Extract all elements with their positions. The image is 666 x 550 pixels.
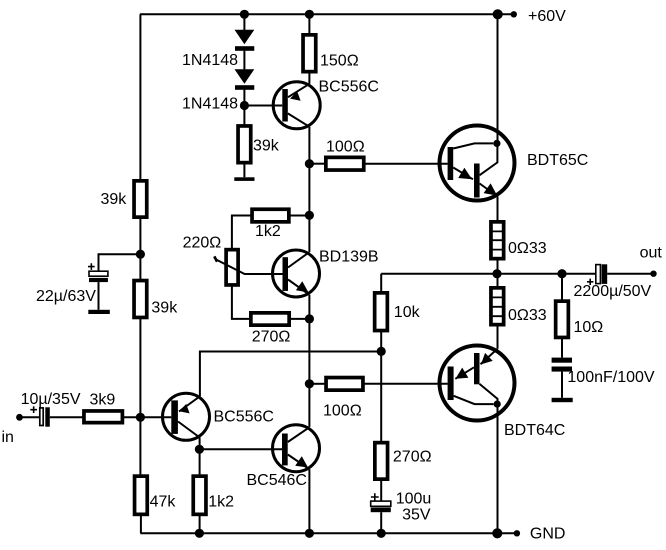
svg-text:150Ω: 150Ω [320, 52, 359, 69]
svg-text:BC556C: BC556C [319, 78, 379, 95]
svg-text:10µ/35V: 10µ/35V [21, 391, 81, 408]
svg-text:1k2: 1k2 [255, 223, 281, 240]
svg-text:BDT65C: BDT65C [527, 152, 588, 169]
svg-text:3k9: 3k9 [90, 392, 116, 409]
svg-text:in: in [2, 429, 14, 446]
svg-text:270Ω: 270Ω [252, 329, 291, 346]
svg-text:39k: 39k [101, 191, 128, 208]
svg-text:BDT64C: BDT64C [504, 422, 565, 439]
svg-text:100u: 100u [396, 491, 432, 508]
svg-text:10Ω: 10Ω [574, 319, 604, 336]
svg-text:10k: 10k [394, 304, 421, 321]
svg-text:1k2: 1k2 [208, 494, 234, 511]
svg-text:39k: 39k [151, 300, 178, 317]
svg-text:+60V: +60V [528, 8, 566, 25]
svg-text:35V: 35V [402, 507, 431, 524]
svg-text:22µ/63V: 22µ/63V [36, 288, 96, 305]
svg-text:220Ω: 220Ω [183, 234, 222, 251]
svg-text:39k: 39k [253, 138, 280, 155]
svg-text:0Ω33: 0Ω33 [508, 307, 547, 324]
svg-text:0Ω33: 0Ω33 [508, 240, 547, 257]
svg-text:100Ω: 100Ω [323, 403, 362, 420]
svg-text:2200µ/50V: 2200µ/50V [574, 283, 652, 300]
svg-text:GND: GND [530, 526, 566, 543]
svg-text:1N4148: 1N4148 [182, 52, 238, 69]
svg-text:270Ω: 270Ω [393, 449, 432, 466]
svg-text:out: out [640, 244, 663, 261]
svg-text:47k: 47k [150, 494, 177, 511]
svg-text:100nF/100V: 100nF/100V [567, 369, 655, 386]
svg-text:BC556C: BC556C [214, 409, 274, 426]
svg-text:BD139B: BD139B [319, 249, 379, 266]
svg-text:BC546C: BC546C [247, 472, 307, 489]
svg-text:100Ω: 100Ω [326, 139, 365, 156]
svg-text:1N4148: 1N4148 [182, 95, 238, 112]
